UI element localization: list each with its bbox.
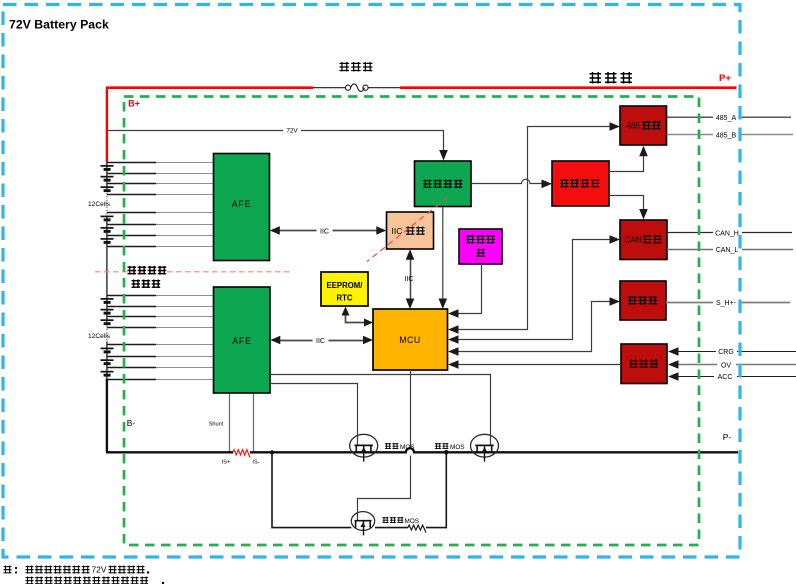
wire 485_B line [667, 134, 794, 136]
block IIC isolation IIC隔离 [387, 212, 434, 249]
block AFE U1 [214, 154, 270, 261]
label ACC [714, 372, 737, 381]
arrow into CAN top [639, 209, 648, 220]
label 充电MOS [435, 443, 441, 449]
wire ACC input [671, 376, 796, 378]
svg-text:IIC: IIC [316, 338, 325, 345]
block 485 module [620, 106, 667, 145]
wire power module to MCU [442, 207, 444, 306]
label 放电MOS [385, 443, 391, 449]
wire P- rail shunt to end [250, 448, 738, 452]
arrow into AFE1 right [270, 226, 280, 234]
svg-text:CAN_L: CAN_L [716, 247, 739, 254]
svg-text:B-: B- [127, 418, 136, 428]
svg-text:IIC: IIC [320, 228, 329, 235]
svg-text:MOS: MOS [400, 444, 415, 451]
svg-text:S_H+-: S_H+- [716, 300, 737, 307]
svg-text:ACC: ACC [718, 374, 733, 381]
wire total-voltage sense to MCU [451, 264, 482, 314]
mosfet discharge MOS Q1 [350, 434, 378, 461]
label 预放电MOS [383, 517, 389, 523]
arrow into power module top [439, 150, 448, 161]
arrow into MCU right y339 [448, 335, 459, 344]
mosfet charge MOS Q2 [471, 434, 499, 461]
battery stack 2 (12 cells) [101, 295, 214, 380]
wire OV input [671, 364, 796, 366]
wire fuse lead left [313, 87, 345, 89]
svg-text:RTC: RTC [336, 294, 352, 303]
svg-text:B+: B+ [128, 99, 140, 109]
mosfet pre-discharge MOS Q3 [351, 512, 374, 536]
label 电压、温 (voltage/temp) [128, 266, 137, 275]
block power module 电源模块 [415, 161, 472, 207]
label 总压采 line1 [466, 235, 475, 244]
wire CRG input [671, 351, 796, 353]
block MCU [373, 309, 448, 370]
svg-text:P+: P+ [719, 73, 731, 84]
label IIC horizontal 1 [317, 226, 333, 235]
svg-text:485: 485 [626, 121, 641, 131]
arrow into wake source CRG [668, 347, 679, 356]
svg-text:CAN: CAN [625, 236, 642, 245]
junction dot at pre-discharge return [444, 450, 449, 455]
svg-text:12Cells: 12Cells [88, 333, 111, 340]
block one-wire 一线通 [620, 281, 666, 320]
wire P+ red horizontal segment 2 [400, 86, 737, 89]
label 保险丝 (fuse) [340, 62, 350, 72]
arrow into 485 left [610, 122, 621, 131]
arrow into CAN left [610, 235, 621, 244]
wire B+ red vertical drop [106, 88, 108, 162]
wire IIC between IIC isolation and MCU [410, 253, 412, 306]
svg-text:MCU: MCU [399, 335, 421, 345]
label 隔离电源 [560, 179, 569, 188]
wire series link between stacks [106, 246, 108, 295]
wire fuse lead right [368, 87, 400, 89]
label CAN_L [713, 245, 742, 254]
arrow into wake source ACC [668, 372, 679, 381]
arrow into MCU right y365 [448, 360, 459, 369]
label 度采集 (sampling) [132, 280, 141, 289]
svg-text:AFE: AFE [232, 336, 252, 346]
wire pre-discharge branch right [375, 452, 446, 527]
wire CAN_H line [667, 232, 792, 234]
svg-text:12Cells: 12Cells [88, 201, 111, 208]
wire AFE2 gate drive to discharge MOS [270, 384, 358, 445]
wire MCU to wake source [451, 364, 621, 366]
svg-text:72V: 72V [92, 565, 107, 575]
label 485_A [713, 113, 740, 122]
arrow into isolated power left [542, 180, 553, 189]
label 保护板 (protection board) [590, 72, 602, 84]
arrow into MCU top x410 [406, 299, 415, 310]
arrow into wake source OV [668, 360, 679, 369]
wire pre-discharge branch left [272, 452, 351, 527]
svg-text:EEPROM/: EEPROM/ [327, 281, 364, 290]
arrow into MCU left y323 [364, 319, 373, 327]
wire MCU to 485 module [451, 127, 616, 330]
wire EEPROM to MCU L-shape [346, 310, 370, 323]
block AFE U2 [214, 287, 271, 393]
label 485_B [713, 131, 740, 140]
arrow into one-wire left [610, 297, 621, 306]
wire MCU to pre-discharge gate [358, 370, 411, 520]
arrow into MCU right y330 [448, 325, 459, 334]
svg-text:485_A: 485_A [716, 115, 737, 122]
label 一线通 [628, 296, 637, 305]
wire power module to isolated power with hop [471, 179, 549, 183]
wire isolated power to CAN module [609, 196, 644, 217]
green dashed box (protection board) [124, 97, 699, 546]
wire isolated power to 485 module [609, 149, 644, 172]
svg-text:Shunt: Shunt [209, 422, 224, 428]
label IIC horizontal 2 [313, 336, 329, 345]
svg-text:MOS: MOS [405, 518, 420, 525]
label 集 line2 [477, 249, 486, 258]
battery stack 1 (12 cells) [101, 162, 214, 247]
label OV [717, 361, 736, 370]
wire MCU to CAN module [451, 240, 616, 340]
svg-text:CRG: CRG [718, 349, 734, 356]
wire B+ red horizontal segment 1 [106, 86, 313, 89]
block wake source 唤醒源 [621, 344, 667, 384]
label 72V [283, 127, 301, 134]
arrow into 485 bottom [639, 146, 648, 157]
arrow into MCU right y314 [448, 309, 459, 318]
red dashed line voltage/temp sampling [95, 271, 293, 273]
svg-text:P-: P- [723, 432, 732, 442]
block total-voltage sense 总压采集 [459, 229, 502, 264]
wire AFE2 sense line IS- [253, 394, 255, 451]
svg-text:IIC: IIC [405, 276, 414, 283]
wire AFE2 sense line IS+ [229, 394, 231, 451]
wire 72V from B+ to power module [107, 131, 444, 157]
arrow into IIC isolation left [376, 226, 386, 234]
svg-text:72V: 72V [286, 128, 298, 135]
wire P- rail left of shunt [106, 451, 233, 453]
block CAN module [620, 220, 667, 260]
svg-text:AFE: AFE [232, 199, 252, 209]
arrow into MCU top x443 [439, 299, 448, 310]
block isolated power 隔离电源 [552, 161, 609, 206]
wire IIC AFE2 to MCU [274, 340, 370, 342]
svg-text:OV: OV [721, 363, 731, 370]
wire IIC AFE1 to IIC isolation [273, 230, 383, 232]
wire CAN_L line [667, 249, 793, 251]
label CAN_H [713, 229, 742, 238]
block EEPROM/RTC [321, 272, 368, 306]
svg-text:IS+: IS+ [222, 460, 231, 466]
fuse F1 [345, 84, 368, 92]
label 电源模块 [423, 180, 432, 189]
pre-discharge resistor [408, 525, 426, 533]
svg-text:485_B: 485_B [716, 132, 737, 139]
shunt resistor red zigzag [233, 450, 250, 458]
arrow into IIC isolation bottom [406, 249, 415, 260]
svg-text:CAN_H: CAN_H [715, 230, 739, 237]
wire 485_A line [667, 116, 792, 118]
arrow into MCU right y351 [448, 347, 459, 356]
red dashed isolation diagonal [367, 198, 448, 262]
svg-text:72V Battery Pack: 72V Battery Pack [9, 18, 109, 32]
wire AFE2 gate drive to charge MOS [270, 375, 491, 445]
label 唤醒源 [629, 360, 638, 369]
note line 1 [4, 566, 12, 574]
svg-text:MOS: MOS [450, 444, 465, 451]
note line 2 [26, 577, 34, 584]
wire MCU to one-wire [451, 302, 616, 352]
arrow into AFE2 right [270, 336, 280, 344]
arrow into EEPROM bottom [342, 307, 350, 316]
arrow into MCU left y340 [363, 336, 373, 344]
label CRG [716, 347, 737, 356]
svg-text:IIC: IIC [392, 226, 403, 236]
label S_H+- [713, 298, 740, 307]
svg-text:IS-: IS- [252, 460, 259, 466]
wire B- thick drop to P- rail [106, 379, 108, 452]
junction dot at pre-discharge tap [270, 450, 274, 454]
wire one-wire output line [666, 302, 790, 304]
